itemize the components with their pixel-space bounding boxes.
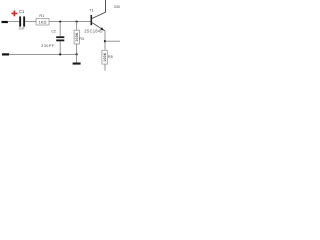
- node emitter junction: [104, 40, 106, 42]
- node C2-ground junction: [59, 53, 61, 55]
- wire C1 to R1: [25, 21, 36, 23]
- resistor R3 box: [74, 30, 79, 44]
- svg-text:1KΩ: 1KΩ: [39, 19, 47, 24]
- node R3-ground junction: [76, 53, 78, 55]
- wire R1 to T1 base: [49, 21, 91, 23]
- wire R5 down: [104, 64, 106, 71]
- node junction to C2: [59, 21, 61, 23]
- svg-text:C2: C2: [51, 29, 56, 33]
- wire C2 to ground rail: [59, 41, 61, 54]
- svg-text:100K: 100K: [103, 52, 107, 61]
- wire emitter down: [104, 31, 106, 50]
- svg-text:330: 330: [114, 4, 120, 9]
- wire junction down to ground: [76, 54, 78, 62]
- capacitor C1 polarity plus (red): [12, 11, 18, 17]
- transistor Q1 base bar: [91, 15, 93, 25]
- svg-text:R1: R1: [39, 13, 44, 18]
- svg-text:330PF: 330PF: [41, 43, 55, 48]
- wire input terminal stub top-left: [2, 21, 9, 23]
- wire emitter to right edge: [105, 40, 120, 42]
- wire down to R3: [76, 22, 78, 31]
- svg-text:R5: R5: [108, 55, 113, 59]
- capacitor C1: [19, 16, 21, 26]
- emitter arrow: [100, 27, 104, 30]
- wire ground rail: [9, 53, 77, 55]
- svg-text:T1: T1: [89, 9, 93, 13]
- capacitor C2: [56, 36, 64, 38]
- resistor R5 box: [102, 50, 107, 64]
- svg-text:R3: R3: [79, 37, 84, 41]
- wire down to C2: [59, 22, 61, 37]
- transistor emitter lead: [92, 23, 105, 31]
- svg-text:2SC1845: 2SC1845: [84, 28, 103, 33]
- wire R3 to ground rail: [76, 44, 78, 54]
- wire ground terminal stub bottom-left: [2, 53, 9, 55]
- ground: [73, 63, 81, 65]
- wire stub to C1: [8, 21, 20, 23]
- node junction to R3: [76, 21, 78, 23]
- resistor R1 box: [36, 18, 49, 25]
- svg-text:C1: C1: [19, 9, 25, 14]
- svg-text:1uF: 1uF: [18, 27, 25, 31]
- transistor collector lead: [92, 0, 105, 18]
